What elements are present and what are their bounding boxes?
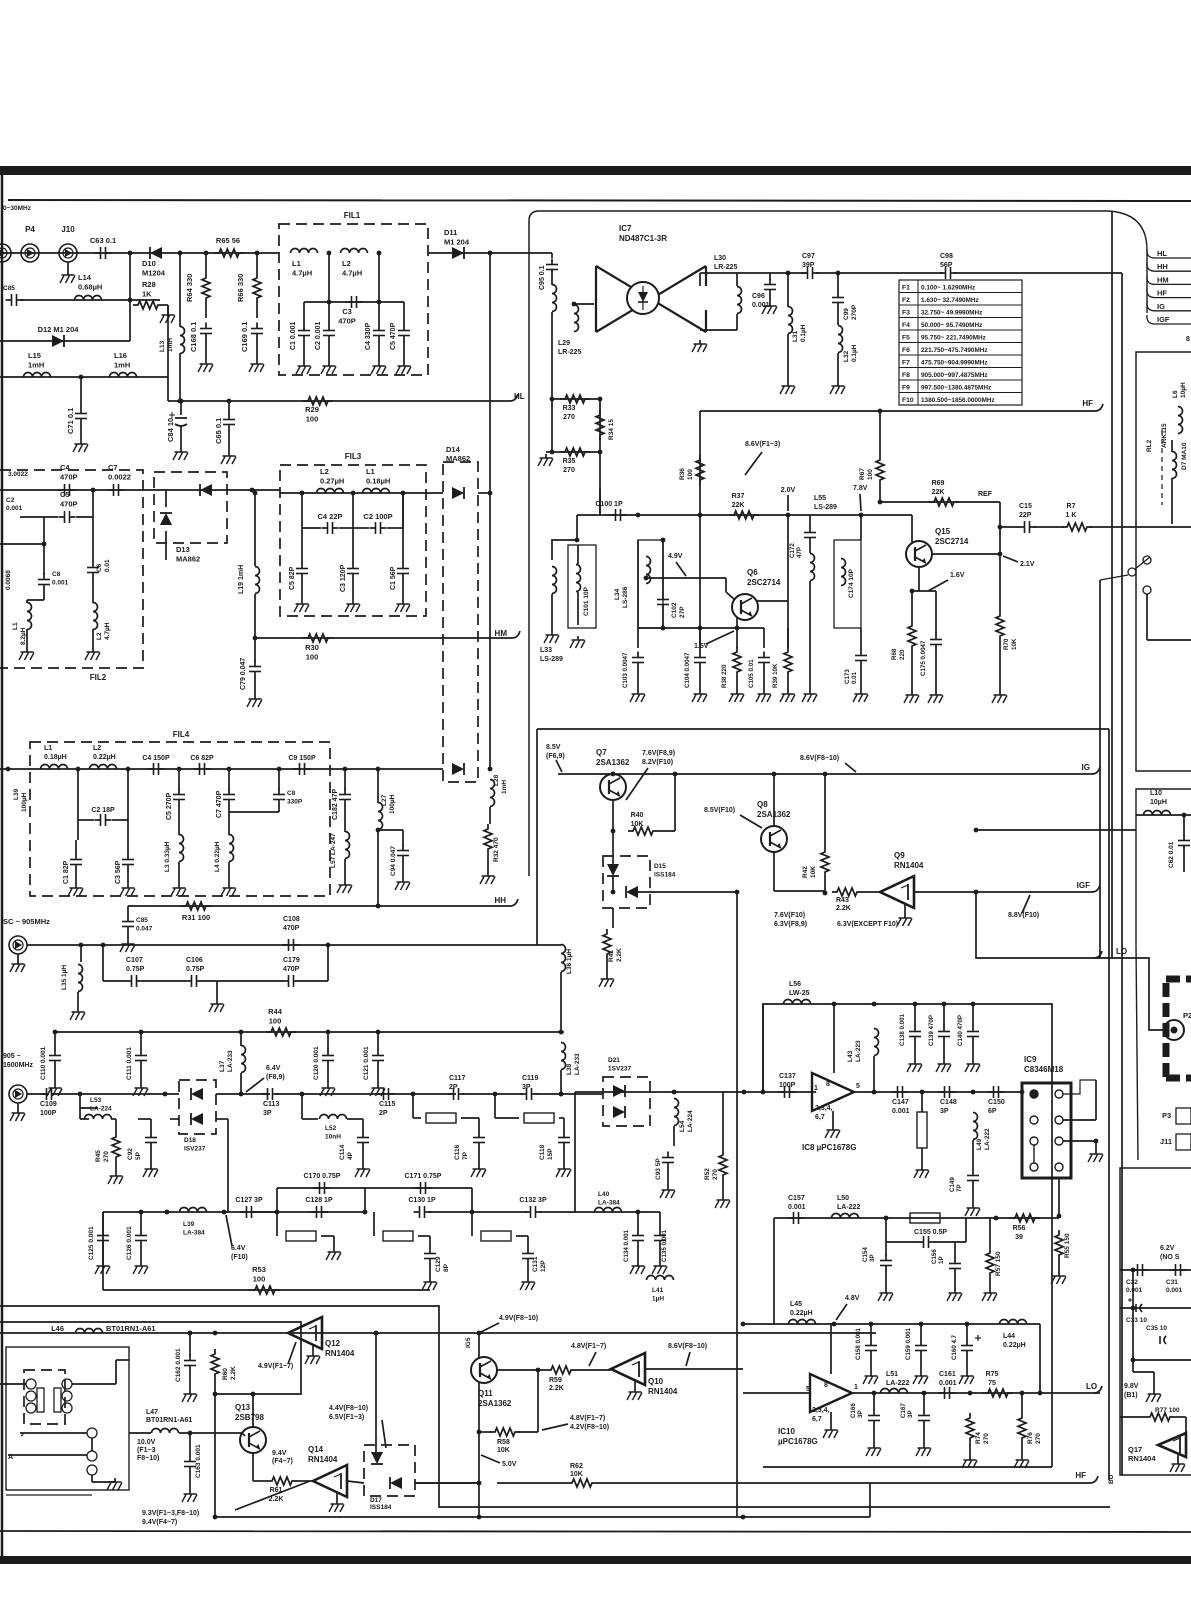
relay unit box bbox=[6, 1347, 129, 1490]
svg-text:7.6V(F10): 7.6V(F10) bbox=[774, 912, 805, 919]
wire IC8 out bbox=[854, 1091, 1022, 1093]
capacitor C95 bbox=[546, 259, 558, 276]
wire Q15 base drop bbox=[911, 515, 913, 543]
label Q17 bbox=[1128, 1445, 1156, 1463]
svg-text:3.0022: 3.0022 bbox=[8, 471, 28, 478]
svg-text:C147: C147 bbox=[892, 1099, 909, 1106]
svg-text:C1 0.001: C1 0.001 bbox=[290, 321, 297, 350]
wire R58 up bbox=[537, 1370, 539, 1432]
wire bbox=[347, 1118, 363, 1120]
svg-text:0.001: 0.001 bbox=[939, 1380, 957, 1387]
svg-text:8.2µH: 8.2µH bbox=[20, 627, 27, 645]
svg-text:C110 0.001: C110 0.001 bbox=[40, 1046, 47, 1080]
wire bbox=[79, 1094, 81, 1108]
wire bbox=[202, 980, 283, 982]
label 6.2V bbox=[1160, 1245, 1180, 1261]
svg-text:F7: F7 bbox=[902, 360, 910, 367]
wire bbox=[91, 1475, 93, 1482]
wire bbox=[189, 1472, 191, 1490]
svg-text:C97: C97 bbox=[802, 253, 815, 260]
wire bbox=[402, 493, 404, 563]
svg-text:C85: C85 bbox=[3, 285, 15, 292]
label C2 FIL2 bbox=[6, 497, 15, 504]
label L1 FIL1 bbox=[292, 259, 312, 278]
wire C160 bbox=[966, 1324, 968, 1340]
svg-text:ARK115: ARK115 bbox=[1161, 423, 1168, 448]
wire bbox=[478, 1118, 480, 1132]
ground IC10 bbox=[823, 1426, 838, 1438]
tag HF curl2 bbox=[1090, 1476, 1098, 1483]
connector J10 bbox=[59, 244, 77, 262]
stripline R56 row bbox=[910, 1213, 940, 1223]
svg-text:RN1404: RN1404 bbox=[325, 1349, 355, 1358]
wire C174 top bbox=[860, 515, 862, 540]
svg-text:C8346M18: C8346M18 bbox=[1024, 1065, 1064, 1074]
svg-text:L2: L2 bbox=[342, 259, 351, 268]
label L2 FIL2 bbox=[96, 632, 103, 640]
svg-text:L33: L33 bbox=[540, 647, 552, 654]
label R58 bbox=[497, 1439, 510, 1454]
label Q8 bbox=[757, 800, 791, 819]
ground C134 bbox=[630, 1262, 645, 1274]
wire IC8 gnd stub bbox=[832, 1111, 834, 1126]
svg-text:LA-233: LA-233 bbox=[227, 1050, 234, 1072]
label FIL4 in bbox=[13, 788, 20, 800]
inductor L16 bbox=[110, 373, 137, 378]
ground C105 bbox=[756, 690, 771, 702]
svg-text:1: 1 bbox=[854, 1384, 858, 1391]
svg-text:8.2V(F10): 8.2V(F10) bbox=[642, 759, 673, 766]
capacitor C156 bbox=[949, 1258, 961, 1275]
wire bbox=[402, 861, 404, 878]
label L6 bbox=[1172, 390, 1179, 398]
wire C173 top bbox=[860, 628, 862, 650]
wire bbox=[205, 253, 207, 273]
svg-text:C130 1P: C130 1P bbox=[408, 1197, 436, 1204]
svg-text:6.5V(F1~3): 6.5V(F1~3) bbox=[329, 1414, 364, 1421]
wire bbox=[127, 769, 129, 812]
wire bbox=[79, 1108, 81, 1119]
label C174 bbox=[848, 568, 855, 598]
ground C92 bbox=[143, 1165, 158, 1177]
svg-text:L3 0.33µH: L3 0.33µH bbox=[164, 841, 171, 872]
ground C3 FIL4 bbox=[120, 884, 135, 896]
svg-text:475.750~904.9990MHz: 475.750~904.9990MHz bbox=[921, 360, 988, 367]
svg-text:L14: L14 bbox=[78, 273, 92, 282]
svg-text:C106: C106 bbox=[186, 957, 203, 964]
capacitor C6 FIL2 bbox=[87, 562, 99, 579]
amplifier IC8 bbox=[812, 1073, 854, 1111]
wire bbox=[92, 517, 94, 562]
svg-text:C3 56P: C3 56P bbox=[115, 860, 122, 884]
wire L47 out bbox=[179, 1432, 242, 1434]
junction bbox=[178, 399, 183, 404]
junction bbox=[644, 576, 649, 581]
capacitor C2 FIL3 bbox=[370, 522, 387, 534]
junction bbox=[878, 409, 883, 414]
ground L3 FIL4 bbox=[171, 884, 186, 896]
wire R58 left bbox=[479, 1431, 492, 1433]
label IC8 pin1 bbox=[814, 1085, 818, 1092]
svg-text:2P: 2P bbox=[449, 1084, 458, 1091]
svg-text:6,7: 6,7 bbox=[815, 1114, 825, 1121]
capacitor C182 bbox=[339, 789, 351, 806]
wire bbox=[577, 545, 579, 564]
wire bbox=[362, 1148, 364, 1165]
svg-text:C94 0.047: C94 0.047 bbox=[390, 846, 397, 876]
svg-text:10K: 10K bbox=[497, 1447, 510, 1454]
junction bbox=[477, 1481, 482, 1486]
resistor R37 bbox=[729, 511, 759, 519]
capacitor C4 FIL3 bbox=[322, 522, 339, 534]
diode D18b bbox=[191, 1113, 203, 1125]
junction bbox=[253, 491, 258, 496]
svg-text:C132 3P: C132 3P bbox=[519, 1197, 547, 1204]
ground C169 bbox=[249, 360, 264, 372]
label C131 bbox=[532, 1256, 547, 1272]
svg-text:R70: R70 bbox=[1003, 638, 1010, 650]
wire Q15 out bbox=[931, 553, 1000, 555]
wire bbox=[935, 591, 937, 634]
svg-text:LA-224: LA-224 bbox=[90, 1106, 112, 1113]
wire x537 drop bbox=[536, 729, 538, 945]
label 7.6V bbox=[642, 750, 675, 766]
capacitor C65 bbox=[223, 414, 235, 431]
inductor L36 bbox=[561, 945, 566, 972]
label R55 bbox=[1064, 1233, 1071, 1258]
label L39 bbox=[183, 1221, 205, 1237]
svg-text:4.7µH: 4.7µH bbox=[104, 622, 111, 640]
stripline resonator 3 bbox=[286, 1231, 316, 1241]
label C148 bbox=[940, 1099, 957, 1115]
svg-text:3P: 3P bbox=[857, 1410, 864, 1418]
svg-text:R52: R52 bbox=[704, 1168, 711, 1180]
label C92 bbox=[127, 1148, 142, 1160]
label Q12 bbox=[325, 1339, 355, 1358]
label C110 bbox=[40, 1046, 47, 1080]
junction bbox=[178, 251, 183, 256]
wire bbox=[328, 253, 330, 302]
label C119 bbox=[522, 1075, 538, 1091]
wire IGF row left bbox=[638, 891, 737, 893]
junction bbox=[971, 1002, 976, 1007]
label R28 bbox=[142, 280, 156, 299]
wire bbox=[302, 1118, 318, 1120]
label C85b bbox=[136, 917, 153, 933]
junction bbox=[1020, 1391, 1025, 1396]
capacitor C99 bbox=[832, 292, 844, 309]
wire C170 row bbox=[277, 1187, 472, 1189]
junction bbox=[1057, 1214, 1062, 1219]
wire C32 C33 bbox=[1132, 1270, 1134, 1308]
ground C101 bbox=[570, 636, 585, 648]
diode D10 bbox=[150, 247, 162, 259]
junction bbox=[672, 1090, 677, 1095]
wire bbox=[769, 295, 771, 302]
resistor R75 bbox=[983, 1389, 1013, 1397]
label L46 bbox=[51, 1324, 64, 1333]
svg-text:F4: F4 bbox=[902, 322, 910, 329]
svg-text:D18: D18 bbox=[184, 1137, 196, 1144]
capacitor C128 bbox=[311, 1206, 328, 1218]
junction bbox=[327, 300, 332, 305]
wire bbox=[115, 1360, 117, 1384]
svg-text:2.2K: 2.2K bbox=[836, 905, 851, 912]
wire IC9 right bbox=[1063, 1080, 1096, 1094]
label Q6 bbox=[747, 568, 781, 587]
wire D7 bbox=[1171, 440, 1173, 452]
wire bbox=[461, 1117, 479, 1119]
svg-text:C8: C8 bbox=[287, 790, 296, 797]
capacitor C3 FIL3 bbox=[347, 563, 359, 580]
label L33 bbox=[540, 647, 563, 663]
svg-text:P3: P3 bbox=[1162, 1111, 1171, 1120]
svg-text:R76: R76 bbox=[1027, 1432, 1034, 1444]
diode D18a bbox=[191, 1088, 203, 1100]
junction bbox=[1020, 1090, 1025, 1095]
wire bbox=[1058, 1260, 1060, 1272]
wire bbox=[55, 1093, 179, 1095]
svg-text:270P: 270P bbox=[851, 304, 858, 320]
wire bbox=[240, 1032, 242, 1046]
ground R70 bbox=[992, 691, 1007, 703]
svg-text:L37: L37 bbox=[219, 1060, 226, 1072]
wire bbox=[989, 1218, 991, 1248]
svg-text:C7 470P: C7 470P bbox=[216, 790, 223, 818]
svg-text:FIL3: FIL3 bbox=[345, 452, 362, 461]
svg-text:L35 1µH: L35 1µH bbox=[61, 965, 68, 990]
label R40 bbox=[631, 812, 644, 828]
wire bbox=[769, 273, 771, 280]
wire C140 bbox=[972, 1004, 974, 1026]
wire bbox=[216, 1093, 270, 1095]
leader 8.5V F10 bbox=[740, 815, 762, 828]
label C FIL2 rot bbox=[5, 570, 12, 590]
label L15 bbox=[28, 351, 44, 370]
svg-text:100: 100 bbox=[306, 415, 319, 424]
svg-text:C8: C8 bbox=[52, 571, 61, 578]
svg-text:997.500~1380.4875MHz: 997.500~1380.4875MHz bbox=[921, 385, 991, 392]
capacitor C106 bbox=[186, 975, 203, 987]
wire C104 stub bbox=[699, 628, 701, 648]
label 10.0V bbox=[137, 1439, 159, 1462]
junction bbox=[213, 1515, 218, 1520]
svg-text:HM: HM bbox=[1157, 275, 1169, 284]
svg-text:8: 8 bbox=[824, 1382, 828, 1389]
resistor R69 bbox=[929, 498, 959, 506]
resistor R36 bbox=[696, 455, 704, 485]
wire bbox=[429, 1236, 431, 1248]
wire bbox=[1033, 526, 1064, 528]
svg-text:9.4V(F4~7): 9.4V(F4~7) bbox=[142, 1519, 177, 1526]
junction bbox=[376, 1030, 381, 1035]
wire FIL3 row bbox=[280, 492, 443, 494]
label C95 bbox=[539, 265, 546, 290]
svg-text:IGF: IGF bbox=[1157, 315, 1170, 324]
leader 8.5V bbox=[556, 760, 562, 772]
wire bbox=[873, 1056, 875, 1092]
wire bbox=[606, 959, 608, 975]
junction bbox=[477, 1331, 482, 1336]
svg-text:L27: L27 bbox=[381, 794, 388, 806]
junction bbox=[488, 491, 493, 496]
svg-text:R40: R40 bbox=[631, 812, 644, 819]
filter block FIL1 bbox=[279, 224, 428, 375]
wire IC10 top bbox=[830, 1324, 832, 1374]
capacitor C35 pol bbox=[1160, 1336, 1166, 1344]
svg-text:L44: L44 bbox=[1003, 1333, 1015, 1340]
label C6b bbox=[104, 559, 111, 572]
wire bbox=[150, 1148, 152, 1165]
wire bbox=[165, 531, 167, 560]
svg-text:C1 82P: C1 82P bbox=[63, 860, 70, 884]
junction bbox=[698, 513, 703, 518]
inductor L6 bbox=[1178, 407, 1183, 434]
resistor R41 bbox=[603, 929, 611, 959]
capacitor C125 bbox=[97, 1230, 109, 1247]
inductor L4 FIL4 bbox=[229, 835, 234, 862]
svg-text:R35: R35 bbox=[563, 458, 576, 465]
svg-text:2SA1362: 2SA1362 bbox=[478, 1399, 512, 1408]
svg-text:C100 1P: C100 1P bbox=[595, 501, 623, 508]
wire bbox=[497, 1482, 567, 1484]
svg-text:C5 270P: C5 270P bbox=[166, 792, 173, 820]
tag IG curl bbox=[1092, 767, 1100, 774]
label HF tag2 bbox=[1075, 1471, 1086, 1480]
wire bbox=[546, 451, 552, 453]
wire bbox=[673, 1126, 675, 1146]
label L2 FIL4 bbox=[93, 745, 116, 761]
wire bbox=[20, 299, 160, 301]
wire bbox=[699, 273, 701, 286]
svg-text:C7: C7 bbox=[108, 463, 118, 472]
diode D14a bbox=[452, 487, 464, 499]
wire bbox=[551, 253, 553, 258]
inductor L10 bbox=[1144, 811, 1171, 816]
svg-text:LA-223: LA-223 bbox=[855, 1040, 862, 1062]
label C5 FIL3 bbox=[289, 566, 296, 590]
diode block D17 bbox=[364, 1445, 415, 1496]
junction bbox=[126, 767, 131, 772]
wire Q13 base link bbox=[242, 1433, 245, 1436]
label C134 bbox=[623, 1229, 630, 1262]
wire bbox=[336, 1493, 338, 1500]
label C2 FIL3 bbox=[363, 512, 392, 521]
wire bbox=[362, 1119, 364, 1132]
label FIL1 bbox=[344, 211, 361, 220]
capacitor C173 bbox=[855, 650, 867, 667]
leader 8.8V bbox=[1022, 895, 1030, 913]
svg-text:3P: 3P bbox=[940, 1108, 949, 1115]
label 4.9V F8-10 bbox=[499, 1315, 538, 1322]
ground R55 bbox=[1051, 1272, 1066, 1284]
svg-text:L43: L43 bbox=[847, 1050, 854, 1062]
label C127 bbox=[235, 1197, 263, 1204]
capacitor C33 pol bbox=[1128, 1298, 1142, 1312]
inductor L52 bbox=[320, 1115, 347, 1120]
ground IC9 bbox=[1088, 1150, 1103, 1162]
wire C138 bbox=[914, 1004, 916, 1026]
svg-text:7.6V(F8,9): 7.6V(F8,9) bbox=[642, 750, 675, 757]
svg-text:0.18µH: 0.18µH bbox=[366, 477, 390, 486]
wire bbox=[112, 819, 128, 821]
junction bbox=[177, 767, 182, 772]
svg-text:C2 100P: C2 100P bbox=[363, 512, 392, 521]
ground C3 FIL3 bbox=[345, 600, 360, 612]
label C98 bbox=[940, 253, 953, 269]
ground 905 connector bbox=[10, 1109, 25, 1121]
junction bbox=[179, 399, 184, 404]
diode D13a bbox=[200, 484, 212, 496]
wire IC10 loop bottom bbox=[763, 1466, 1052, 1468]
wire bbox=[551, 539, 553, 560]
svg-text:C5 470P: C5 470P bbox=[390, 322, 397, 350]
diode D15a bbox=[607, 864, 619, 876]
label C109 bbox=[40, 1101, 57, 1117]
leader 4.9V F1-7 bbox=[288, 1342, 296, 1364]
ground C111 bbox=[133, 1084, 148, 1096]
svg-text:D17: D17 bbox=[370, 1497, 382, 1504]
wire bbox=[178, 862, 180, 884]
svg-text:C175 0.0047: C175 0.0047 bbox=[920, 640, 927, 676]
capacitor C157 bbox=[788, 1212, 805, 1224]
junction bbox=[300, 491, 305, 496]
wire bbox=[1095, 1141, 1097, 1150]
junction bbox=[761, 1090, 766, 1095]
mixer IC7 diode bbox=[638, 286, 648, 310]
inductor L38 bbox=[561, 1043, 566, 1070]
resistor R31 bbox=[181, 902, 211, 910]
svg-text:L16: L16 bbox=[114, 351, 127, 360]
svg-text:(F10): (F10) bbox=[231, 1254, 248, 1261]
ground C94 bbox=[395, 878, 410, 890]
wire bbox=[303, 302, 305, 325]
wire C159 bbox=[920, 1324, 922, 1340]
wire bbox=[76, 516, 93, 518]
svg-text:D13: D13 bbox=[176, 545, 190, 554]
svg-text:C103 0.0047: C103 0.0047 bbox=[622, 652, 629, 688]
wire bbox=[471, 1212, 473, 1236]
label C157 bbox=[788, 1195, 806, 1211]
junction bbox=[101, 943, 106, 948]
ground C93 bbox=[660, 1186, 675, 1198]
ground C156 bbox=[947, 1289, 962, 1301]
svg-text:(F4~7): (F4~7) bbox=[272, 1458, 293, 1465]
junction bbox=[300, 1092, 305, 1097]
wire bbox=[763, 668, 765, 690]
svg-text:5: 5 bbox=[856, 1083, 860, 1090]
junction bbox=[661, 626, 666, 631]
svg-text:C93 5P: C93 5P bbox=[655, 1158, 662, 1180]
svg-text:L45: L45 bbox=[790, 1301, 802, 1308]
junction bbox=[872, 1090, 877, 1095]
wire bbox=[972, 1140, 974, 1170]
stripline resonator 1 bbox=[426, 1113, 456, 1123]
svg-text:A: A bbox=[8, 1454, 13, 1461]
wire C139 bbox=[943, 1004, 945, 1026]
wire bbox=[837, 273, 839, 292]
wire 8.6V drop bbox=[699, 411, 701, 517]
svg-text:L55: L55 bbox=[814, 495, 826, 502]
ground C103 bbox=[630, 690, 645, 702]
wire bbox=[216, 1118, 228, 1120]
wire bbox=[180, 426, 182, 448]
wire bbox=[256, 339, 258, 360]
junction bbox=[974, 828, 979, 833]
label L3 FIL4 bbox=[164, 841, 171, 872]
wire bbox=[27, 1093, 49, 1095]
label check bbox=[20, 1432, 26, 1439]
